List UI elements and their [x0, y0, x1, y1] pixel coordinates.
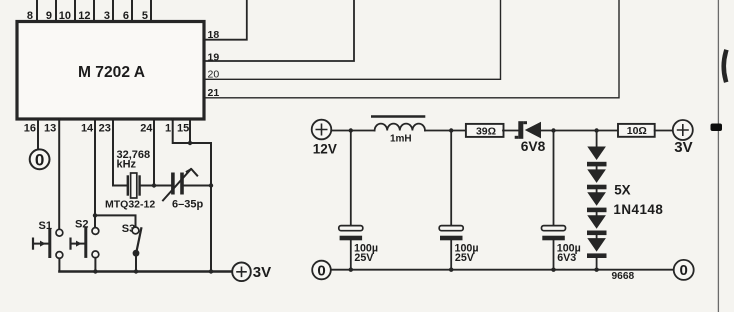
- zener diode D1 6V8: [518, 121, 523, 139]
- wire pin 20 right: [204, 0, 501, 79]
- svg-text:21: 21: [208, 87, 220, 99]
- svg-text:10Ω: 10Ω: [627, 125, 647, 137]
- svg-text:19: 19: [208, 51, 220, 63]
- svg-text:6V3: 6V3: [557, 252, 576, 264]
- wire C4 top: [553, 131, 555, 226]
- wire S3 bottom to rail: [135, 253, 137, 271]
- svg-text:MTQ32-12: MTQ32-12: [105, 198, 155, 210]
- svg-text:14: 14: [81, 123, 94, 135]
- wire pin 10 top: [74, 0, 76, 22]
- junction trimmer/vertical: [209, 183, 213, 187]
- +3V output terminal: [673, 120, 693, 140]
- wire branch pin14 to S3: [95, 215, 136, 227]
- svg-text:9668: 9668: [612, 271, 635, 282]
- svg-text:1: 1: [165, 123, 171, 135]
- switch S1 pushbutton: [56, 229, 63, 236]
- node 0 terminal power left: [312, 261, 331, 280]
- svg-text:6–35p: 6–35p: [172, 198, 203, 210]
- wire inductor to R1: [425, 130, 465, 132]
- capacitor C2: [339, 226, 363, 231]
- svg-text:16: 16: [24, 123, 36, 135]
- junction stack bottom: [594, 268, 598, 272]
- svg-text:3V: 3V: [253, 264, 271, 281]
- trimmer capacitor C1 6-35p: [171, 173, 175, 195]
- wire C3 top: [450, 131, 452, 226]
- wire 12V to inductor: [331, 130, 374, 132]
- switch S2 pushbutton: [92, 228, 99, 235]
- wire pin 24 bottom: [153, 119, 155, 186]
- svg-text:0: 0: [35, 150, 44, 169]
- junction pin14 branch: [93, 213, 97, 217]
- svg-text:3V: 3V: [674, 139, 692, 156]
- wire C4 bottom: [553, 240, 555, 269]
- svg-text:6: 6: [123, 10, 129, 22]
- junction S3/rail: [134, 269, 138, 273]
- wire pin 15 bottom: [189, 119, 191, 143]
- +12V input terminal: [312, 120, 332, 140]
- diode D3: [587, 169, 606, 183]
- wire right vertical to rail: [210, 143, 212, 272]
- bottom rail power section: [331, 269, 674, 271]
- wire R2 to 3V terminal: [655, 130, 673, 132]
- wire C3 bottom: [450, 240, 452, 269]
- junction C3 top: [449, 128, 453, 132]
- wire pin 5 top: [150, 0, 152, 22]
- svg-text:5: 5: [142, 10, 148, 22]
- wire pin 16 bottom: [37, 119, 39, 149]
- crystal X1 32.768kHz: [127, 177, 129, 195]
- svg-text:0: 0: [317, 262, 325, 279]
- wire stack bottom: [596, 258, 598, 270]
- svg-text:39Ω: 39Ω: [476, 125, 496, 137]
- svg-text:6V8: 6V8: [521, 139, 546, 154]
- junction C4 top: [551, 128, 555, 132]
- svg-text:0: 0: [680, 262, 688, 279]
- wire pin 6 top: [131, 0, 133, 22]
- wire C2 top: [350, 131, 352, 226]
- svg-text:24: 24: [140, 123, 153, 135]
- svg-text:20: 20: [208, 68, 220, 80]
- wire D4-D5: [596, 212, 598, 215]
- wire pin 19 right: [204, 0, 354, 61]
- wire zener to R2: [541, 130, 617, 132]
- resistor R1 39ohm: [466, 124, 504, 137]
- capacitor C4: [542, 226, 566, 231]
- svg-text:9: 9: [46, 10, 52, 22]
- svg-text:18: 18: [208, 29, 220, 41]
- IC U1 M7202A box: [17, 22, 204, 120]
- wire crystal to trimmer: [141, 185, 171, 187]
- inductor L1 1mH: [375, 124, 425, 131]
- wire S1 bottom to rail: [58, 258, 60, 271]
- wire D5-D6: [596, 235, 598, 238]
- svg-text:13: 13: [44, 123, 56, 135]
- node 0 terminal power right: [674, 260, 694, 280]
- wire stack top: [596, 131, 598, 147]
- junction C2 bottom: [349, 268, 353, 272]
- svg-text:kHz: kHz: [117, 158, 137, 170]
- wire D2-D3: [596, 166, 598, 169]
- switch S3 toggle: [132, 227, 139, 234]
- node 0 terminal left: [30, 149, 50, 169]
- junction C4 bottom: [551, 268, 555, 272]
- wire pin 12 top: [93, 0, 95, 22]
- svg-text:12: 12: [78, 10, 90, 22]
- svg-text:M 7202 A: M 7202 A: [78, 64, 145, 81]
- diode D2: [587, 147, 606, 161]
- wire pin 18 right: [204, 0, 247, 40]
- svg-text:15: 15: [177, 123, 189, 135]
- wire pin 21 right: [204, 0, 619, 98]
- svg-text:1mH: 1mH: [390, 133, 412, 144]
- wire pin 13 bottom: [58, 119, 60, 229]
- junction diode stack top: [594, 128, 598, 132]
- wire D3-D4: [596, 189, 598, 192]
- junction C2 top: [349, 128, 353, 132]
- svg-text:1N4148: 1N4148: [613, 202, 663, 217]
- junction C3 bottom: [449, 268, 453, 272]
- diode D6: [587, 238, 606, 252]
- junction pin24/crystal-trimmer: [152, 183, 156, 187]
- wire trimmer right: [184, 185, 211, 187]
- wire R1 to zener: [503, 130, 518, 132]
- svg-text:25V: 25V: [354, 252, 374, 264]
- wire bottom rail left section: [59, 270, 232, 272]
- svg-text:5X: 5X: [614, 183, 630, 198]
- resistor R2 10ohm: [618, 124, 655, 137]
- junction pin15/pin1: [188, 141, 192, 145]
- wire pin 9 top: [55, 0, 57, 22]
- wire pin 8 top: [36, 0, 38, 22]
- wire C2 bottom: [350, 240, 352, 269]
- svg-text:23: 23: [99, 123, 111, 135]
- page edge line artifact: [717, 0, 719, 312]
- +3V terminal left section: [232, 263, 251, 282]
- junction S2/rail: [93, 269, 97, 273]
- wire pin 14 bottom: [94, 119, 96, 228]
- diode D4: [587, 192, 606, 206]
- wire S2 bottom to rail: [94, 258, 96, 272]
- page edge dash artifact: [711, 124, 723, 132]
- inductor core bar: [372, 115, 424, 118]
- svg-text:12V: 12V: [313, 141, 337, 156]
- junction vertical/rail: [209, 269, 213, 273]
- capacitor C3: [439, 226, 463, 231]
- page edge crescent artifact: [724, 52, 726, 80]
- svg-text:25V: 25V: [455, 252, 475, 264]
- wire pin 23 bottom: [113, 119, 127, 186]
- wire pin 1 bottom: [173, 119, 211, 143]
- diode D5: [587, 215, 606, 229]
- svg-text:8: 8: [27, 10, 33, 22]
- svg-text:10: 10: [59, 10, 71, 22]
- svg-text:3: 3: [104, 10, 110, 22]
- wire pin 3 top: [112, 0, 114, 22]
